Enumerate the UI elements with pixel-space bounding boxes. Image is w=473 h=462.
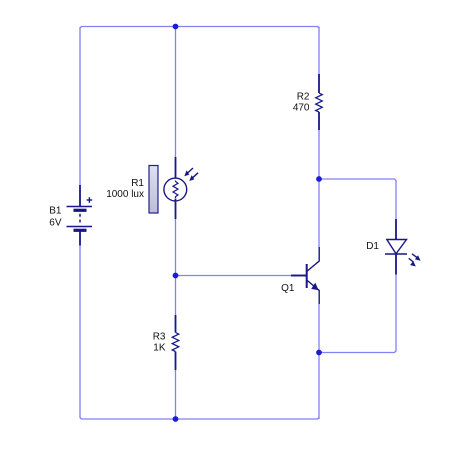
resistor R2 xyxy=(316,74,323,130)
svg-text:D1: D1 xyxy=(366,241,379,252)
node dot bottom xyxy=(173,416,179,422)
svg-text:6V: 6V xyxy=(49,218,62,229)
wire right branch mid1 xyxy=(318,130,320,179)
wire middle branch bottom xyxy=(175,370,177,419)
node dot top xyxy=(173,24,179,30)
photoresistor R1 slider xyxy=(149,166,158,214)
photoresistor R1 xyxy=(164,157,198,219)
wire right branch low1 xyxy=(318,304,320,353)
wire bottom rail xyxy=(80,418,319,420)
wire right branch low2 xyxy=(318,353,320,420)
svg-text:Q1: Q1 xyxy=(281,283,295,294)
wire middle branch mid xyxy=(175,219,177,276)
light arrows into R1 xyxy=(187,168,194,174)
wire middle branch upper xyxy=(175,27,177,159)
wire left rail upper xyxy=(79,27,81,186)
wire top rail xyxy=(80,27,319,29)
plus sign xyxy=(87,199,93,201)
svg-text:470: 470 xyxy=(293,103,310,114)
svg-text:R3: R3 xyxy=(153,332,166,343)
transistor Q1 xyxy=(291,247,319,304)
svg-text:1K: 1K xyxy=(153,343,166,354)
svg-text:1000 lux: 1000 lux xyxy=(106,189,144,200)
wire led top xyxy=(319,179,396,219)
wire right branch top xyxy=(318,27,320,75)
battery B1 xyxy=(67,185,93,246)
node dot emitter xyxy=(316,350,322,356)
LED D1 xyxy=(385,219,421,275)
wire right branch mid2 xyxy=(318,179,320,247)
wire left rail lower xyxy=(79,245,81,418)
svg-text:R1: R1 xyxy=(131,178,144,189)
wire base xyxy=(176,275,293,277)
wire led bottom xyxy=(319,275,396,353)
node dot base xyxy=(173,273,179,279)
svg-text:B1: B1 xyxy=(49,206,62,217)
svg-text:R2: R2 xyxy=(297,92,310,103)
wire middle branch lower xyxy=(175,276,177,316)
light arrows out of D1 xyxy=(412,254,417,258)
resistor R3 xyxy=(172,315,179,370)
node dot right mid xyxy=(316,176,322,182)
